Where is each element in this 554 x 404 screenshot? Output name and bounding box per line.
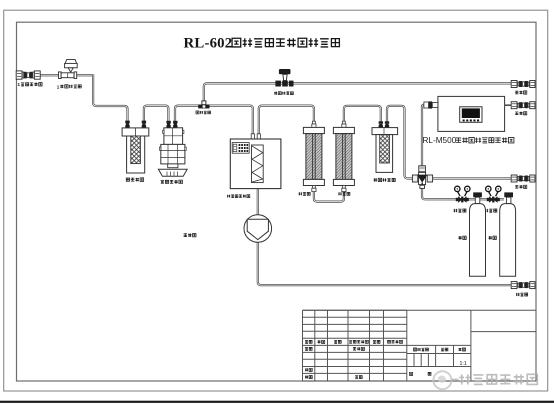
- label precision filter: [374, 178, 377, 181]
- label standard gas 2: [489, 236, 492, 239]
- gas analyzer RL-M500: [424, 96, 505, 131]
- cross fitting junction: [412, 166, 432, 189]
- vent needle valve: [275, 69, 293, 87]
- label standard gas 1: [458, 236, 461, 239]
- svg-text:1: 1: [57, 84, 60, 89]
- label vent regulating valve: [274, 92, 277, 95]
- electric ball valve V1: [59, 60, 78, 79]
- label sampling pump: [161, 180, 164, 183]
- label filter: [338, 192, 342, 195]
- watermark dash: [452, 379, 459, 381]
- wire: vent line tee to waste port: [204, 83, 512, 103]
- standard gas cylinder 2: [500, 192, 516, 276]
- svg-text:RL-M500: RL-M500: [423, 136, 457, 145]
- precision filter: [372, 121, 398, 172]
- svg-text:1: 1: [18, 82, 21, 87]
- label regulator 1: [454, 209, 458, 212]
- label dryer: [299, 192, 303, 195]
- standard gas cylinder 1: [470, 192, 486, 276]
- drain port fitting: [511, 282, 535, 289]
- standard gas port fitting: [511, 175, 535, 182]
- semiconductor condenser: [230, 134, 281, 189]
- waste gas port fitting: [511, 81, 535, 88]
- dryer column: [303, 121, 324, 191]
- wire: condenser drain via peristaltic pump: [257, 189, 259, 216]
- sampling pump P1: [158, 121, 187, 176]
- peristaltic pump: [244, 215, 272, 243]
- filter column: [333, 121, 354, 191]
- label peristaltic pump: [184, 234, 187, 237]
- watermark logo circle: [433, 371, 451, 389]
- wire: inlet to ball valve to filter: [40, 74, 93, 76]
- svg-text:RL-602: RL-602: [184, 36, 233, 52]
- wire: filter to pump: [144, 106, 169, 122]
- wire: cross to standard gas port: [431, 177, 512, 179]
- bottom black bar: [0, 401, 554, 403]
- pressure regulator 2: [486, 186, 501, 203]
- wire: condenser to dryer: [259, 106, 314, 139]
- wire: precision filter to cross fitting: [387, 106, 413, 179]
- wire: analyzer outlet stub: [505, 104, 512, 106]
- title block table: [303, 310, 537, 381]
- vent tee fitting: [198, 101, 209, 109]
- svg-text:1:1: 1:1: [460, 361, 467, 367]
- wire: filter top to precision filter: [344, 106, 381, 122]
- label semiconductor condenser: [227, 195, 230, 198]
- label membrane filter: [126, 178, 129, 181]
- watermark text: [459, 374, 470, 384]
- wire: cross to analyzer inlet: [422, 105, 426, 166]
- membrane filter F1: [122, 121, 149, 173]
- wire: dryer bottom to filter bottom: [314, 191, 344, 202]
- pressure regulator 1: [455, 186, 470, 203]
- sample gas inlet fitting: [16, 71, 40, 79]
- wire: cross to regulators: [422, 188, 504, 199]
- exhaust port fitting: [511, 102, 535, 109]
- label regulator 2: [484, 209, 488, 212]
- label vent tee: [196, 111, 199, 114]
- wire: pump to tee to condenser: [175, 106, 253, 139]
- table header texts: [305, 340, 308, 343]
